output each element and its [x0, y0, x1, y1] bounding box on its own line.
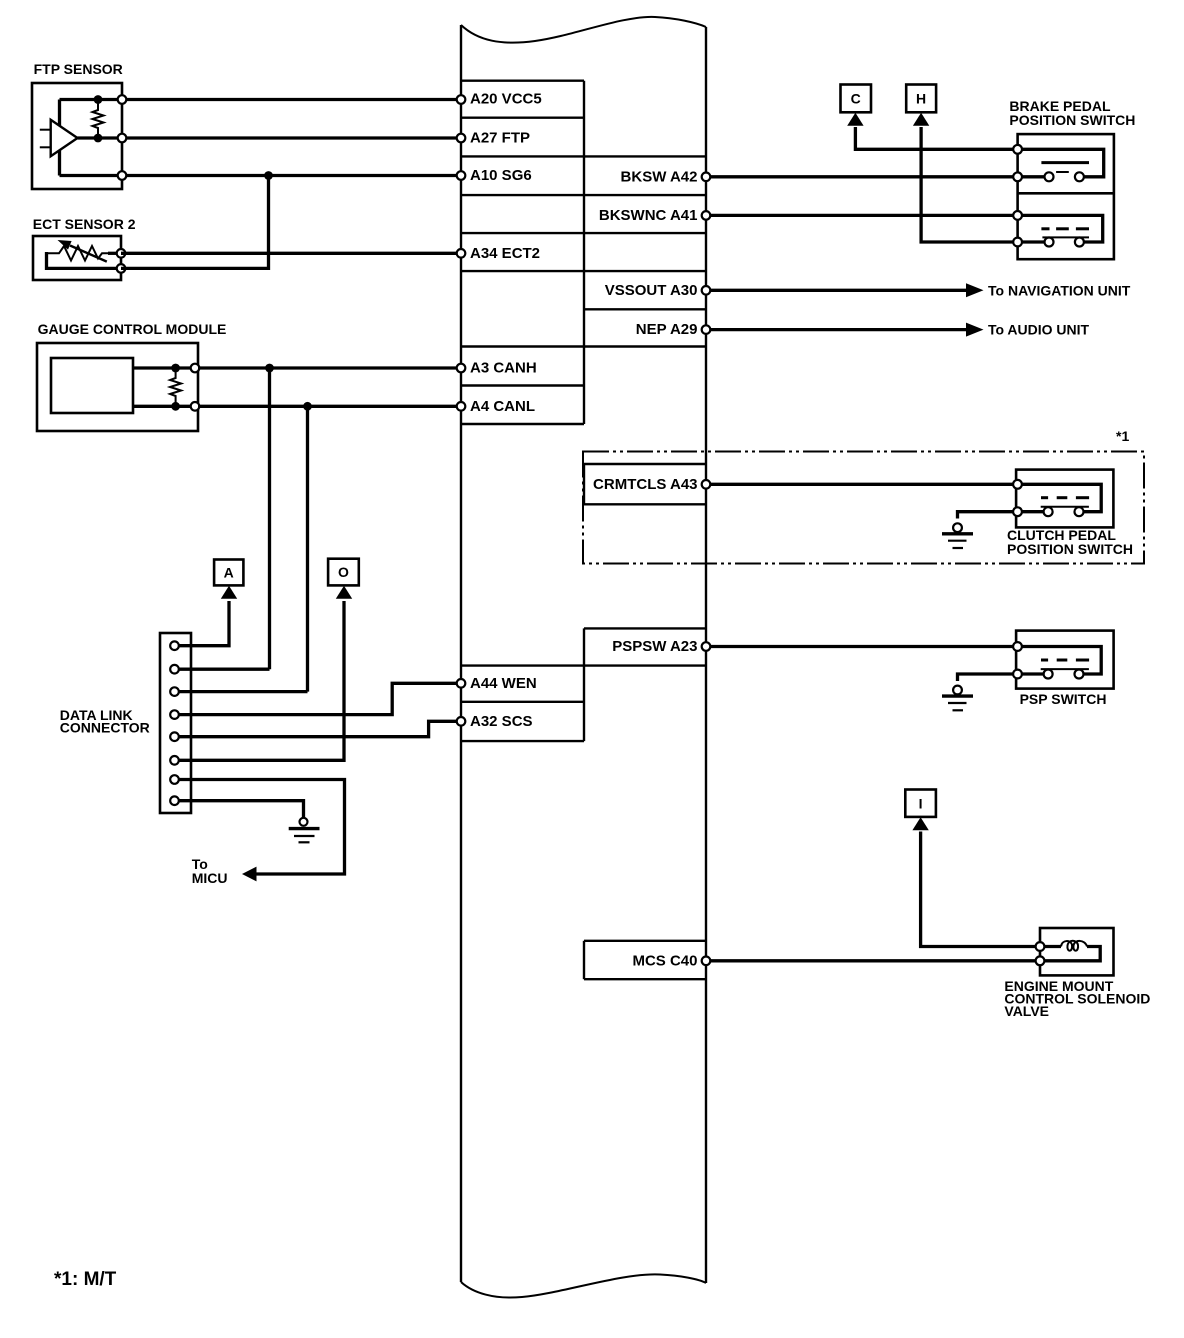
- svg-text:POSITION SWITCH: POSITION SWITCH: [1009, 112, 1135, 128]
- junction dot CANL: [303, 402, 312, 411]
- wire FTP to A10 SG6: [122, 174, 461, 177]
- junction dot SG6 wire: [264, 171, 273, 180]
- FTP sensor top internal wire: [60, 98, 123, 101]
- gauge internal CANL wire: [133, 405, 198, 408]
- audio arrowhead: [966, 323, 984, 337]
- PSP switch contact loop: [1018, 647, 1102, 675]
- brake switch top left contact feed: [1018, 175, 1044, 178]
- PSP switch thin bar: [1041, 668, 1089, 670]
- ECT terminal circle upper: [117, 249, 126, 258]
- svg-text:*1: M/T: *1: M/T: [54, 1269, 117, 1290]
- FTP sensor box: [32, 83, 122, 189]
- junction dot gauge resistor bottom: [171, 402, 180, 411]
- svg-text:C: C: [851, 91, 861, 107]
- data link connector box: [160, 633, 191, 813]
- DLC pin 5 wire to A32 SCS: [175, 721, 462, 736]
- clutch ground bars: [942, 532, 973, 535]
- DLC pin 7 wire to MICU: [175, 780, 345, 875]
- svg-text:*1: *1: [1116, 428, 1129, 444]
- svg-text:CONNECTOR: CONNECTOR: [60, 720, 150, 736]
- DLC pin 3 wire to CANL: [175, 690, 308, 693]
- svg-text:PSPSW A23: PSPSW A23: [612, 638, 697, 655]
- connector C arrowhead: [847, 113, 863, 126]
- svg-text:A27 FTP: A27 FTP: [470, 130, 530, 147]
- wire gauge to A3 CANH: [198, 366, 461, 369]
- resistor in gauge module: [170, 368, 181, 406]
- svg-text:MICU: MICU: [192, 870, 228, 886]
- solenoid coil loops: [1061, 941, 1087, 951]
- ECT thermistor arrow: [70, 246, 107, 262]
- wire BKSW A42 to brake switch: [706, 175, 1018, 178]
- wire connector C to brake switch: [855, 127, 1017, 149]
- clutch switch dashed bar: [1041, 496, 1089, 499]
- ECT sensor thermistor zigzag: [47, 246, 113, 261]
- brake switch terminal circles: [1013, 145, 1022, 154]
- ECM/PCM pin grid lines: [461, 81, 706, 424]
- svg-text:BKSW A42: BKSW A42: [621, 168, 698, 185]
- wire CRMTCLS A43 to clutch switch: [706, 483, 1018, 486]
- brake switch bottom contact circles: [1045, 238, 1054, 247]
- clutch switch contact loop: [1018, 484, 1102, 511]
- gauge terminal circle CANH: [191, 364, 200, 373]
- svg-text:A20 VCC5: A20 VCC5: [470, 91, 542, 108]
- clutch switch left contact feed and ground wire: [958, 512, 1045, 519]
- PSP ground bars: [942, 694, 973, 697]
- connector C box: [841, 85, 872, 113]
- svg-text:A4 CANL: A4 CANL: [470, 398, 535, 415]
- clutch ground circle: [953, 523, 962, 532]
- FTP sensor bottom internal wire: [60, 174, 123, 177]
- ECT sensor lower loop wire: [47, 252, 122, 268]
- FTP terminal circle 2: [118, 134, 127, 143]
- ECM/PCM top wavy edge: [461, 17, 706, 43]
- solenoid coil wire: [1040, 945, 1061, 948]
- svg-text:ECT SENSOR 2: ECT SENSOR 2: [33, 216, 136, 232]
- wire connector I to solenoid: [921, 832, 1040, 947]
- wire connector H to brake switch: [921, 127, 1018, 242]
- DLC pin 2 wire to CANH: [175, 668, 270, 671]
- connector A arrowhead: [221, 586, 237, 599]
- PSP switch left contact feed and ground wire: [958, 674, 1045, 681]
- junction dot FTP resistor top: [94, 95, 103, 104]
- wire FTP to A27 FTP: [122, 136, 461, 139]
- brake switch bottom contact loop: [1018, 215, 1103, 242]
- wire FTP to A20 VCC5: [122, 98, 461, 101]
- svg-text:PSP SWITCH: PSP SWITCH: [1020, 691, 1107, 707]
- svg-text:GAUGE CONTROL MODULE: GAUGE CONTROL MODULE: [38, 321, 227, 337]
- ECM pin circles right edge: [702, 173, 711, 182]
- gauge control module inner box: [51, 358, 133, 413]
- DLC pin 1 wire to connector A: [175, 601, 230, 646]
- engine mount control solenoid valve box: [1040, 928, 1114, 975]
- DLC ground circle: [300, 818, 308, 826]
- clutch switch thin bar: [1041, 506, 1089, 508]
- CRMTCLS A43 pin cell: [584, 464, 706, 504]
- brake switch bottom thin bar: [1042, 236, 1089, 238]
- clutch pedal position switch box: [1016, 470, 1113, 528]
- wire NEP A29 to audio unit: [706, 328, 966, 331]
- PSP switch contact circles: [1044, 670, 1053, 679]
- svg-text:VSSOUT A30: VSSOUT A30: [605, 282, 698, 299]
- wire CANH down to DLC pin2: [268, 368, 271, 669]
- svg-text:NEP A29: NEP A29: [636, 321, 698, 338]
- PSP switch dashed bar: [1041, 659, 1089, 662]
- ECM/PCM column right edge: [705, 27, 707, 1283]
- wire CANL down to DLC pin3: [306, 406, 309, 691]
- gauge control module outer box: [37, 343, 198, 431]
- connector A box: [214, 560, 243, 586]
- junction dot FTP resistor bottom: [94, 134, 103, 143]
- svg-text:POSITION SWITCH: POSITION SWITCH: [1007, 541, 1133, 557]
- brake switch top small dash: [1056, 171, 1069, 173]
- svg-text:A34 ECT2: A34 ECT2: [470, 245, 540, 262]
- connector I box: [905, 790, 936, 817]
- svg-text:CRMTCLS A43: CRMTCLS A43: [593, 476, 697, 493]
- svg-text:MCS C40: MCS C40: [632, 952, 697, 969]
- DLC pin circles: [170, 641, 179, 650]
- brake switch top solid bar: [1041, 161, 1089, 164]
- op-amp in FTP sensor: [51, 120, 78, 156]
- svg-text:A3 CANH: A3 CANH: [470, 360, 537, 377]
- junction dot gauge resistor top: [171, 364, 180, 373]
- wire BKSWNC A41 to brake switch: [706, 214, 1018, 217]
- op-amp output wire: [78, 136, 123, 139]
- ECT sensor 2 box: [33, 236, 121, 280]
- ECT thermistor wire to terminal: [108, 252, 121, 255]
- DLC pin 6 wire to connector O: [175, 601, 345, 760]
- ECM/PCM column left edge: [460, 25, 462, 1282]
- gauge internal CANH wire: [133, 366, 198, 369]
- connector H box: [906, 85, 936, 113]
- clutch switch terminal circles: [1013, 480, 1022, 489]
- ECM/PCM bottom wavy edge: [461, 1274, 706, 1297]
- M/T dashed option box: [583, 452, 1144, 564]
- PSP switch box: [1016, 631, 1114, 689]
- svg-text:To NAVIGATION UNIT: To NAVIGATION UNIT: [988, 282, 1131, 298]
- svg-text:I: I: [919, 796, 923, 812]
- To MICU arrowhead: [242, 867, 257, 882]
- brake switch compartment divider: [1018, 192, 1114, 195]
- wire MCS C40 to solenoid: [706, 959, 1040, 962]
- svg-text:O: O: [338, 564, 349, 580]
- PSP ground circle: [953, 686, 962, 695]
- DLC pin 4 wire to A44 WEN: [175, 683, 462, 714]
- brake switch top contact loop: [1018, 149, 1104, 177]
- PSPSW/A44/A32 pin cell group: [461, 628, 706, 741]
- wire PSPSW A23 to PSP switch: [706, 645, 1018, 648]
- navigation arrowhead: [966, 283, 984, 297]
- svg-text:BKSWNC A41: BKSWNC A41: [599, 207, 698, 224]
- brake switch bottom left contact feed: [1018, 240, 1044, 243]
- MCS C40 pin cell: [584, 941, 706, 979]
- PSP switch terminal circles: [1013, 642, 1022, 651]
- svg-text:A: A: [224, 565, 234, 581]
- DLC pin 8 wire to ground: [175, 801, 304, 818]
- op-amp input stub top: [40, 129, 51, 131]
- brake switch top contact circles: [1045, 172, 1054, 181]
- FTP sensor supply rail wire: [58, 100, 61, 176]
- brake switch bottom dashed bar: [1041, 227, 1089, 230]
- svg-text:A32 SCS: A32 SCS: [470, 713, 533, 730]
- connector H arrowhead: [913, 113, 929, 126]
- svg-text:A44 WEN: A44 WEN: [470, 675, 537, 692]
- connector I arrowhead: [912, 817, 928, 830]
- svg-text:VALVE: VALVE: [1004, 1003, 1049, 1019]
- wire VSSOUT A30 to navigation unit: [706, 289, 966, 292]
- junction dot CANH: [265, 364, 274, 373]
- gauge terminal circle CANL: [191, 402, 200, 411]
- DLC ground bars: [289, 827, 320, 830]
- FTP terminal circle 3: [118, 171, 127, 180]
- svg-text:H: H: [916, 91, 926, 107]
- svg-text:A10 SG6: A10 SG6: [470, 167, 532, 184]
- wire ECT to A34 ECT2: [121, 252, 461, 255]
- svg-text:FTP SENSOR: FTP SENSOR: [34, 61, 123, 77]
- FTP terminal circle 1: [118, 95, 127, 104]
- brake pedal position switch outer box: [1018, 134, 1114, 259]
- wire ECT lower to SG6 junction: [121, 176, 269, 269]
- ECM pin circles left edge: [457, 95, 466, 104]
- solenoid terminal circles: [1036, 942, 1045, 951]
- resistor in FTP sensor: [93, 100, 104, 139]
- svg-text:To AUDIO UNIT: To AUDIO UNIT: [988, 322, 1090, 338]
- connector O arrowhead: [336, 586, 352, 599]
- op-amp input stub bottom: [40, 146, 51, 148]
- connector O box: [328, 559, 359, 586]
- ECT terminal circle lower: [117, 264, 126, 273]
- wire gauge to A4 CANL: [198, 405, 461, 408]
- clutch switch contact circles: [1044, 507, 1053, 516]
